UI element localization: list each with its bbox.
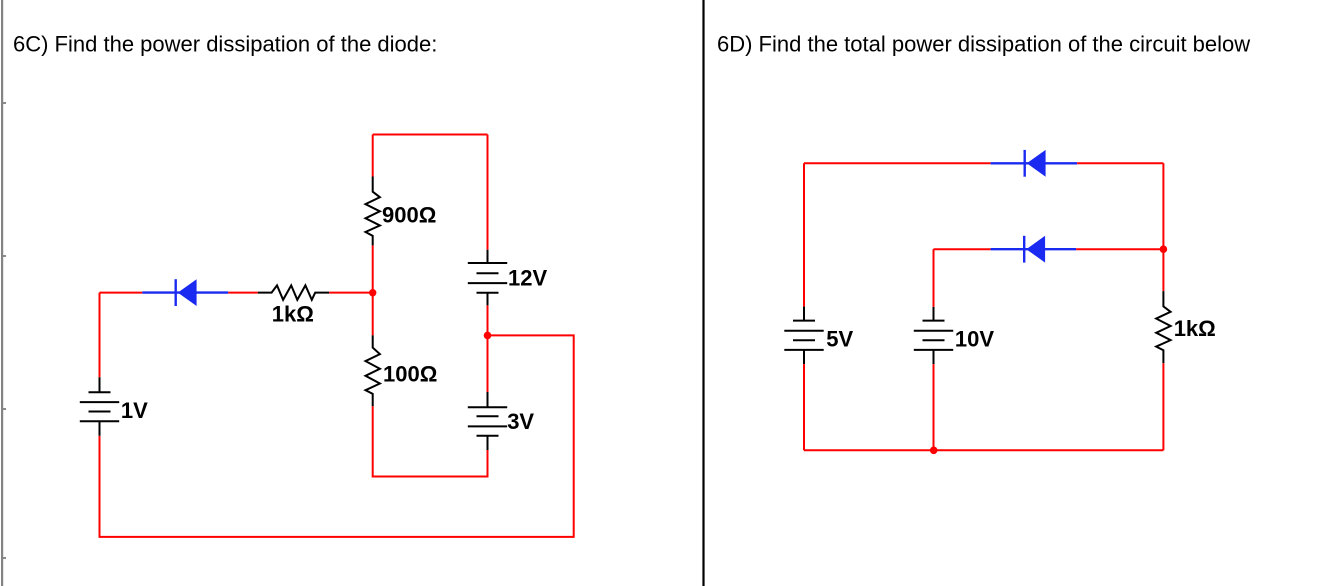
wire 900 ohm up to top rail <box>372 135 374 177</box>
wire diode to 1k resistor <box>228 292 257 294</box>
wire bottom rail <box>804 449 1163 451</box>
wire node B right, down, bottom rail, up to 1V <box>100 335 574 537</box>
wire 1k resistor down to bottom rail <box>1162 363 1164 450</box>
wire node A up to 900 ohm <box>372 245 374 292</box>
wire 100 ohm down and across bottom middle to 3V <box>373 406 488 476</box>
resistor R4 1k ohm <box>1156 291 1170 363</box>
svg-text:900Ω: 900Ω <box>382 203 436 228</box>
svg-text:6D) Find the total power dissi: 6D) Find the total power dissipation of … <box>717 31 1250 56</box>
resistor R3 100 ohm <box>366 335 380 406</box>
svg-text:100Ω: 100Ω <box>383 362 437 387</box>
svg-text:6C) Find the power dissipation: 6C) Find the power dissipation of the di… <box>13 31 437 56</box>
page edge tick 1 <box>3 102 6 104</box>
wire right vertical upper <box>1162 163 1164 249</box>
svg-text:3V: 3V <box>507 409 534 434</box>
wire left vertical <box>803 163 805 306</box>
node middle junction dot <box>1160 245 1168 253</box>
battery V1 12V <box>468 250 507 306</box>
resistor R1 900 ohm <box>366 177 380 246</box>
page left edge line <box>1 0 3 586</box>
node A junction dot <box>369 289 376 296</box>
wire 5V down to bottom rail <box>803 364 805 450</box>
wire diode row left red <box>100 292 143 294</box>
wire right vertical to 1k resistor <box>1162 249 1164 291</box>
svg-text:12V: 12V <box>508 266 547 291</box>
wire node A down to 100 ohm <box>372 293 374 336</box>
svg-text:1V: 1V <box>121 398 148 423</box>
wire top rail right segment <box>1077 162 1163 164</box>
diode D2 (top) <box>991 150 1078 177</box>
page edge tick 4 <box>3 557 6 559</box>
resistor R2 1k ohm <box>258 285 329 299</box>
wire 10V down to bottom rail <box>933 364 935 450</box>
svg-text:1kΩ: 1kΩ <box>272 302 314 327</box>
svg-text:10V: 10V <box>955 327 994 352</box>
wire node B down to 3V <box>487 335 489 392</box>
wire right top vertical <box>487 135 489 250</box>
battery V4 5V <box>784 307 823 365</box>
page edge tick 2 <box>3 255 6 257</box>
wire middle row left red <box>934 248 991 250</box>
center divider line <box>702 0 704 586</box>
svg-text:5V: 5V <box>826 327 853 352</box>
node B junction dot <box>484 332 492 340</box>
wire top rail left segment <box>804 162 991 164</box>
wire top rail <box>373 134 488 136</box>
battery V3 3V <box>468 392 507 450</box>
wire 1k resistor to node A <box>329 292 373 294</box>
node bottom junction dot <box>930 447 938 455</box>
battery V5 10V <box>914 307 953 364</box>
page edge tick 3 <box>3 408 6 410</box>
battery V2 1V <box>80 377 119 436</box>
wire 1V up to diode row <box>99 293 101 378</box>
diode D3 (middle) <box>991 236 1077 263</box>
diode D1 <box>142 279 228 306</box>
wire middle row right red <box>1076 248 1163 250</box>
wire 12V to node B <box>487 305 489 335</box>
wire 10V branch corner down <box>933 249 935 307</box>
svg-text:1kΩ: 1kΩ <box>1174 316 1216 341</box>
